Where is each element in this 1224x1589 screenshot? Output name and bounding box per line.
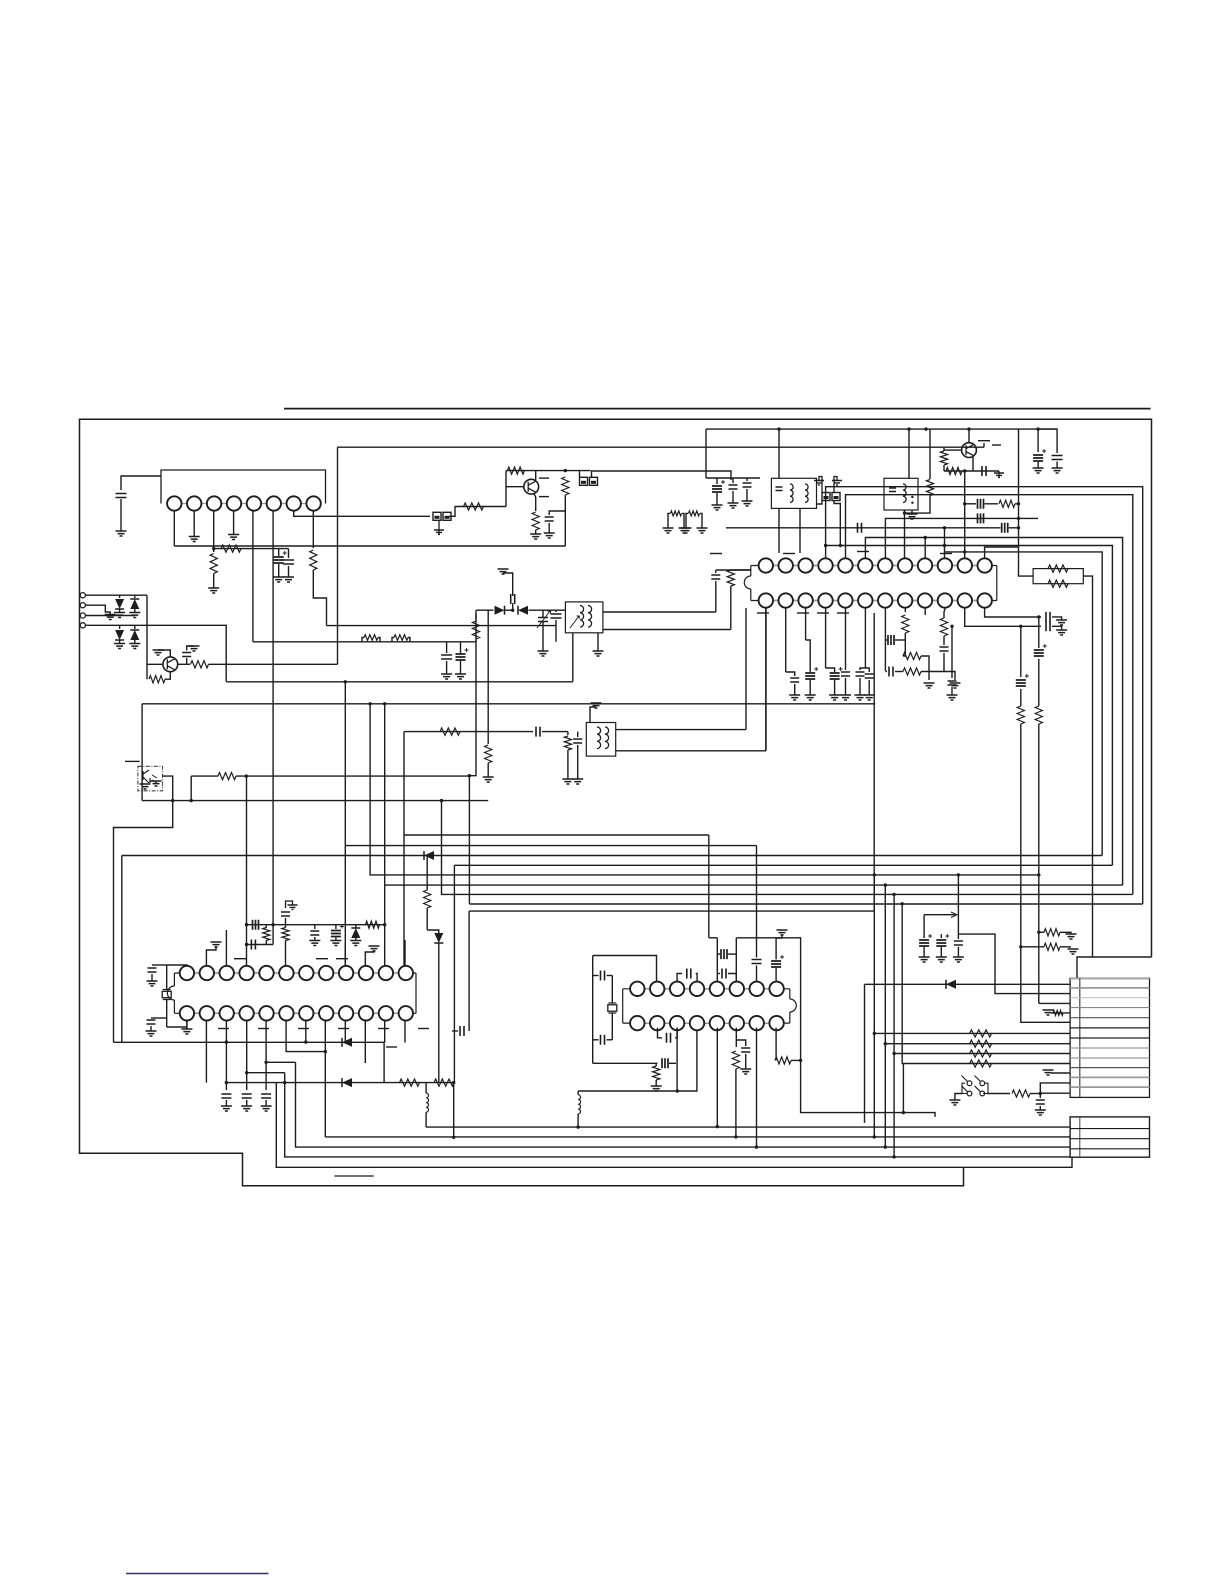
wire U1 pin3 chain down bbox=[213, 511, 215, 553]
cap trio C36 bbox=[957, 934, 959, 939]
resistor R18 bbox=[946, 467, 962, 474]
ground below C44 bbox=[241, 1106, 252, 1111]
U3 pin1 bottom ground bbox=[186, 1021, 188, 1030]
switch left wire to ground bbox=[955, 1094, 962, 1101]
capacitor C39 bbox=[147, 1020, 156, 1024]
resistor R8 bbox=[472, 621, 479, 639]
crystal X3 at U4 bbox=[611, 976, 613, 1004]
wire C30 to ground bbox=[1052, 626, 1062, 630]
ferrite bead pair FB2 bbox=[580, 477, 588, 485]
branch caps of pin3 network bbox=[278, 549, 280, 556]
line y=775.7 from C5 chain bbox=[469, 640, 476, 776]
pin number mark bbox=[378, 1028, 389, 1030]
IC U2 pins bottom row bbox=[766, 600, 985, 602]
ground above U3 pin10 bbox=[369, 946, 380, 951]
T2 internal arrow bbox=[570, 616, 580, 628]
resistor R41 bbox=[653, 1066, 660, 1080]
cap bank column 1 bbox=[716, 478, 718, 484]
cap C55 at R42 bbox=[736, 1040, 745, 1046]
ground below C37 bbox=[1035, 1110, 1046, 1115]
resistor R21 in box bbox=[1048, 580, 1068, 587]
capacitor C11 bbox=[545, 517, 554, 521]
wire C1 to ground bbox=[120, 499, 122, 531]
ground below C39 bbox=[146, 1031, 157, 1036]
ground below R14 bbox=[530, 534, 541, 539]
trimmer capacitor CT1 bbox=[542, 610, 544, 617]
cap C52 column bbox=[756, 944, 758, 958]
left vertical of y=703.8 line bbox=[141, 704, 143, 801]
ground at J2 bbox=[105, 615, 116, 620]
ground below L4 right leg bbox=[697, 528, 708, 533]
capacitor C24 bbox=[856, 672, 865, 676]
capacitor C38 bbox=[148, 968, 157, 972]
diode D1 upper pair column A bbox=[119, 595, 121, 598]
resistor R26 bbox=[1017, 706, 1024, 724]
pin number mark bbox=[992, 444, 1001, 446]
optocoupler U5 bbox=[138, 766, 163, 791]
T3 secondary out top bbox=[616, 729, 746, 731]
capacitor C45 bbox=[261, 1094, 271, 1098]
U2 pin9 network bbox=[924, 608, 926, 615]
resistor R13 above Q2 bbox=[507, 467, 524, 474]
line y=703.8 from left vertical bbox=[142, 703, 875, 705]
pin number mark bbox=[298, 1028, 309, 1030]
X1 internal capacitor bbox=[889, 488, 896, 492]
resistor R35 bbox=[1012, 1090, 1030, 1097]
IC U1 pins 1-8 bbox=[174, 503, 313, 505]
electrolytic capacitor C61 bbox=[253, 920, 259, 930]
pin number mark bbox=[837, 612, 849, 614]
capacitor C41 bbox=[310, 931, 319, 935]
wire box right down the bundle bbox=[1083, 576, 1092, 957]
resistor R34 stub bbox=[1053, 1010, 1063, 1015]
wire R23 right down bbox=[921, 656, 929, 680]
ground below C14 bbox=[742, 501, 753, 506]
wire X3 bottom cap bbox=[607, 1039, 613, 1041]
U2 pin6 column bbox=[864, 608, 866, 668]
wire R15 down to rail 546 bbox=[564, 511, 566, 546]
ground below D2 bbox=[129, 613, 140, 618]
bus 885 line bbox=[385, 884, 1123, 886]
bypass caps right of Q3: C16 bbox=[1037, 429, 1039, 452]
wire rail to FB2 bbox=[579, 471, 581, 478]
ground below D1 bbox=[114, 613, 125, 618]
bus 855 left drop bbox=[121, 856, 123, 1043]
capacitor C9 series bbox=[536, 727, 540, 737]
capacitor C40 bbox=[251, 940, 255, 950]
bus1 drop to X1 bbox=[908, 429, 910, 478]
capacitor C52 bbox=[752, 960, 762, 964]
U2 riser pin11 up to line 471 bbox=[964, 471, 966, 558]
U4 bottom pin7 down to L2 bbox=[756, 1028, 758, 1148]
X3 top wire to U4 pin2 bbox=[593, 956, 657, 982]
ground near CN1 top bbox=[1068, 949, 1079, 954]
bus 865 line bbox=[454, 864, 1112, 866]
electrolytic capacitor C16 bbox=[1033, 455, 1043, 461]
ground below C23 bbox=[840, 695, 851, 700]
bus 894 line bbox=[442, 801, 1133, 895]
ground below C17 bbox=[1052, 468, 1063, 473]
wire pin6 top bend bbox=[736, 938, 935, 1117]
emitter line y=471 bbox=[944, 470, 999, 472]
U3 bottom pin3 chain bbox=[225, 1021, 227, 1091]
resistor R19 bbox=[727, 570, 734, 586]
pin number mark bbox=[940, 553, 952, 555]
connector CN1 bbox=[1070, 978, 1149, 1097]
capacitor C8 at T2 input bbox=[555, 610, 557, 612]
IC U3 pins top row bbox=[187, 972, 406, 974]
ground below C16 bbox=[1033, 468, 1044, 473]
nest corner 2: bus 874 down to CN1 row bbox=[873, 875, 875, 1137]
corner 5 tail down to CN2 jog bbox=[902, 1064, 904, 1113]
line y=800.6 right bbox=[191, 800, 488, 802]
ground above U3 pin6 bbox=[286, 901, 293, 908]
wire Q3 top to bus1 bbox=[968, 429, 970, 443]
pin number mark bbox=[316, 958, 328, 960]
ground below R41 bbox=[651, 1086, 662, 1091]
ground above C7 bbox=[498, 569, 509, 574]
electrolytic capacitor C26 bbox=[888, 635, 894, 645]
ground below C13 bbox=[728, 503, 739, 508]
capacitor C46 bbox=[601, 971, 605, 981]
resistor R14 below Q2 bbox=[532, 512, 539, 530]
ground right of C15 bbox=[998, 471, 1000, 477]
inductor IND1 bbox=[426, 1093, 428, 1112]
wire U1 pin4 down bbox=[233, 511, 235, 535]
U2 riser pin5 to line 494 bbox=[846, 495, 1133, 895]
ground at C5 bbox=[441, 674, 452, 679]
wire T1 bottom to U2 bbox=[778, 508, 780, 553]
diode D3 lower pair column A bbox=[119, 625, 121, 629]
wire to C22 bbox=[826, 668, 835, 672]
wire U1 pin5 down to node bbox=[252, 511, 254, 642]
diode D2 bbox=[130, 599, 139, 609]
jumper inductor L2 bbox=[394, 635, 408, 641]
ground at C30 bbox=[1056, 630, 1067, 635]
resistor R12 bbox=[464, 503, 484, 510]
diode pair feeding T2 bbox=[476, 609, 494, 611]
T1 primary coil bbox=[790, 484, 793, 503]
wire x=1038.8 into CN1 row3 bbox=[1039, 1002, 1070, 1004]
ground at C29 bbox=[1056, 620, 1067, 625]
resistor R16 right of X1 bbox=[929, 429, 931, 479]
wire C26 left bbox=[885, 639, 887, 641]
wire Q2 collector up bbox=[535, 471, 537, 481]
wire opto line to resistor R6 bbox=[191, 775, 218, 777]
ground below C21 bbox=[805, 695, 816, 700]
wire X2 top into U3 bbox=[167, 964, 187, 967]
ground at C2 bbox=[273, 577, 284, 582]
U2 riser pin4 to line 486 bbox=[826, 487, 1143, 904]
U3 bottom pin5 chain bbox=[265, 1021, 267, 1091]
capacitor C58 on line 527 bbox=[858, 523, 862, 533]
wire input J1 right bbox=[85, 594, 147, 596]
capacitor C57 stub bbox=[460, 1026, 464, 1036]
wire C28 node down to ground bbox=[944, 672, 955, 681]
cap trio C35 bbox=[940, 934, 942, 938]
wires T2 secondary joins bbox=[715, 610, 717, 612]
wire U1 pin3 branch right bbox=[214, 548, 289, 550]
capacitor C8 bbox=[551, 614, 562, 618]
capacitor C4 beside Q1 bbox=[187, 646, 194, 648]
U4 bottom pin8 resistor to right bbox=[775, 1028, 777, 1061]
ground mark in optocoupler bbox=[151, 781, 162, 786]
IC U2 body bbox=[750, 566, 752, 577]
ferrite bead pair FB3 bbox=[822, 493, 830, 501]
capacitor C7 above diode node bbox=[512, 603, 514, 610]
wire x=1020.8 to resistor R28 and ground bbox=[1019, 945, 1022, 948]
ground below L4 bbox=[681, 528, 692, 533]
ground above U4 right bbox=[776, 934, 782, 944]
capacitor C5 bbox=[441, 655, 452, 659]
diode D6 bbox=[518, 606, 528, 615]
bypass cap C17 bbox=[1038, 429, 1057, 453]
T1 internal capacitor bbox=[776, 487, 783, 491]
CN1 row stub grounds bbox=[1051, 1012, 1070, 1014]
diode D4 bbox=[130, 630, 139, 640]
pin number mark bbox=[125, 760, 140, 762]
ground above Q1 bbox=[158, 650, 170, 657]
diode D7 bbox=[424, 851, 434, 860]
diode D2 upper pair column B bbox=[134, 595, 136, 598]
wire input J3 right bbox=[85, 615, 134, 617]
resistor R15 bbox=[562, 477, 569, 495]
ground below X1 bbox=[907, 514, 918, 519]
electrolytic capacitor C50 bbox=[721, 949, 727, 959]
Q3 base left wire bbox=[944, 449, 962, 451]
U3 bottom pin11 bbox=[384, 1021, 386, 1043]
wire U2 pin12 top to box vertical bbox=[985, 547, 1019, 558]
electrolytic capacitor C6 bbox=[456, 654, 466, 660]
electrolytic capacitor C12 bbox=[712, 486, 722, 492]
capacitor C4 plates bbox=[182, 653, 191, 657]
bottom-left nest L4 bbox=[276, 1083, 1072, 1168]
ground below C43 bbox=[221, 1106, 232, 1111]
ground below C55 bbox=[740, 1069, 751, 1074]
cap C11 next to R14 bbox=[549, 511, 565, 515]
wire Q2 emitter down bbox=[534, 494, 536, 512]
transistor Q1 bbox=[163, 657, 178, 672]
jumper inductor L1 bbox=[364, 635, 378, 641]
ground below C36 bbox=[953, 957, 964, 962]
diode D3 bbox=[115, 630, 124, 640]
resistor R37 bbox=[282, 928, 289, 941]
inductor IND1 below line B bbox=[425, 1083, 427, 1093]
resistor R5 under Q1 bbox=[149, 676, 165, 683]
capacitor C20 bbox=[790, 678, 799, 682]
oscillator can X1 bbox=[884, 478, 918, 510]
rail y=924.7 above U3 bbox=[247, 924, 385, 926]
line B end vertical to L1 bbox=[453, 1083, 455, 1138]
diode D1 bbox=[115, 599, 124, 609]
ground below R1 bbox=[208, 588, 219, 593]
U3 top components: pin2 ground bend bbox=[206, 946, 216, 966]
U3 right-side diode chain vertical bbox=[426, 856, 428, 891]
U3 pin9 riser lower stub bbox=[344, 945, 346, 966]
jumper bumps pair near x=680 bbox=[668, 513, 670, 528]
ground below C28 bbox=[950, 683, 961, 688]
U2 left resistor R19 bbox=[731, 569, 751, 571]
resistor R8 under diode line bbox=[475, 610, 477, 620]
wire input J2 bend bbox=[85, 605, 110, 614]
ground below FB1 bbox=[438, 520, 440, 534]
pin number mark bbox=[978, 440, 990, 442]
ground below D4 bbox=[129, 644, 140, 649]
T2 ground leg bbox=[597, 633, 599, 651]
diode D4 lower pair column B bbox=[134, 625, 136, 629]
resistor R39 on line B bbox=[400, 1079, 420, 1086]
transistor Q3 bbox=[962, 443, 977, 458]
ground at C3 bbox=[283, 577, 294, 582]
resistor R45 on rail bbox=[366, 921, 380, 928]
wire C29 to ground bbox=[1052, 617, 1062, 620]
ground below C42 bbox=[330, 941, 341, 946]
wire stub CN1 row10 bbox=[1051, 1072, 1070, 1074]
ground below C20 bbox=[789, 695, 800, 700]
bus 885 left vertical through to U3 pin11 bbox=[384, 704, 386, 966]
transformer T2 bbox=[565, 602, 603, 633]
diode feed line to CN1 row1 bbox=[865, 983, 1071, 985]
wire R28 to ground bbox=[1060, 947, 1070, 948]
capacitor C10 bbox=[573, 739, 582, 743]
capacitor C23 bbox=[841, 672, 850, 676]
ground below C11 bbox=[544, 533, 555, 538]
wire C48 up to U4 pin bbox=[611, 1039, 613, 1041]
capacitor C30 bbox=[1046, 621, 1050, 631]
electrolytic capacitor C42 bbox=[331, 931, 341, 937]
ground below C25 bbox=[864, 695, 875, 700]
U3 bottom pin6 jog bbox=[286, 1021, 325, 1052]
nest corner 4 bbox=[893, 894, 895, 1157]
U3 pin3 chain bbox=[225, 930, 227, 966]
series resistor pair box RP1 bbox=[1033, 569, 1083, 584]
bus 911 horizontal bbox=[469, 910, 874, 912]
capacitor C7 bbox=[511, 594, 515, 604]
resistor R10 on T3 line bbox=[440, 728, 460, 735]
vertical x=1020.8 chain bbox=[1020, 626, 1022, 677]
wire U1 top to bypass cap bbox=[121, 476, 161, 490]
ground above T3 bbox=[591, 703, 602, 708]
jumper L3 bbox=[671, 511, 682, 516]
IC U3 body bbox=[173, 973, 175, 986]
crystal X2 at U3 bbox=[166, 965, 168, 989]
ground below C34 bbox=[919, 957, 930, 962]
pin number mark bbox=[710, 553, 722, 555]
U4 pin6 riser bbox=[735, 938, 737, 982]
resistor R11 bbox=[564, 736, 571, 750]
capacitor C18 bbox=[711, 575, 720, 579]
T1 secondary coil bbox=[805, 484, 808, 503]
page top rule bbox=[284, 408, 1151, 410]
U2 pin12 bottom right series caps bbox=[985, 608, 1041, 617]
bus 875 line bbox=[370, 704, 1039, 875]
FB3 left leg to T1 bbox=[817, 501, 823, 505]
line 503.8 with R44 and C59 bbox=[965, 503, 976, 505]
electrolytic capacitor C31 bbox=[1016, 680, 1026, 686]
capacitor C29 bbox=[1046, 612, 1050, 622]
cap C53 column bbox=[775, 944, 777, 959]
nest corner 5 bbox=[902, 904, 1070, 1064]
pin number mark bbox=[418, 1028, 429, 1030]
pin number mark bbox=[218, 1028, 229, 1030]
pin number mark bbox=[757, 612, 769, 614]
line y=471 to right cap bank bbox=[592, 471, 732, 480]
U4 bottom pin2 cap link bbox=[658, 1028, 663, 1038]
capacitor C47 bbox=[601, 1035, 605, 1045]
wire SW1 node right into CN1 row12 bbox=[1040, 1092, 1070, 1094]
wire U1 pin2 down bbox=[193, 511, 195, 537]
capacitor C5 on node line bbox=[446, 642, 448, 653]
wire SW1 node up into CN1 bbox=[1040, 1083, 1070, 1094]
crystal X3 bbox=[608, 1003, 616, 1013]
electrolytic C6 on node line bbox=[460, 642, 462, 653]
collector rail y=470.6 bbox=[506, 470, 591, 472]
ground below C12 bbox=[712, 505, 723, 510]
U2 pin3 down bbox=[805, 608, 807, 640]
resistor R7 drop to diode node bbox=[475, 614, 477, 642]
wire opto branch down to y=800 line bbox=[190, 776, 192, 801]
resistor R4 at Q1 bbox=[191, 661, 209, 668]
cap column C41 bbox=[314, 925, 316, 929]
FB3 right leg to riser bbox=[834, 501, 840, 546]
wire C48 node to R41 bbox=[655, 1063, 657, 1066]
ground below C33 bbox=[947, 695, 958, 700]
cap C33 left of bundle bbox=[951, 626, 953, 678]
cap C37 below SW1 node bbox=[1039, 1094, 1041, 1099]
ground below R23 bbox=[924, 683, 935, 688]
resistor R11 at T3 input bbox=[567, 732, 569, 735]
line 845.6 vertical through to U3 pin9 bbox=[344, 682, 346, 966]
capacitor C51 bbox=[722, 969, 726, 979]
diode D10 bbox=[434, 933, 443, 943]
T2 secondary out bottom bbox=[603, 629, 731, 631]
resistor R1 below U1 pin3 bbox=[210, 554, 217, 574]
U3 bottom pin10 bbox=[364, 1021, 366, 1064]
U2 riser pin9 to line 537 bbox=[924, 538, 926, 559]
capacitor C27 bbox=[889, 667, 893, 677]
pin number mark bbox=[338, 1028, 349, 1030]
bus 865 left vertical down to line B bbox=[453, 865, 455, 1082]
cap bank column 2 bbox=[732, 478, 734, 483]
ground below L3 right leg bbox=[679, 528, 690, 533]
resistor R3 below U1 pin8 bbox=[310, 550, 317, 570]
IC U4 pins bottom row bbox=[637, 1022, 776, 1024]
input jack J1 bbox=[80, 593, 85, 598]
electrolytic capacitor C59 bbox=[978, 499, 984, 509]
vertical diode node down to ground chain bbox=[487, 610, 489, 744]
line A end vertical to line B bbox=[383, 1042, 385, 1082]
power bus 1 bbox=[706, 428, 1057, 430]
IC U4 body bbox=[623, 988, 790, 990]
U3 bottom pin8 down to L1 bbox=[324, 1021, 326, 1137]
pin number mark bbox=[539, 477, 549, 479]
wire J1 line down to Q1 base bbox=[147, 595, 163, 664]
pin number mark bbox=[783, 553, 795, 555]
pin number mark bbox=[539, 496, 549, 498]
line from R3 node right toward T2 area bbox=[327, 625, 557, 627]
wire U1 pin1 down to rail bbox=[173, 511, 175, 547]
capacitor C62 bbox=[281, 912, 290, 916]
resistor R44 bbox=[999, 500, 1015, 507]
U3 pin10 ground bend bbox=[365, 950, 374, 966]
diode column D9 bbox=[355, 925, 357, 928]
U2 pin5 down bbox=[845, 608, 847, 670]
resistor R31 bbox=[970, 1040, 992, 1047]
L2 top jog bbox=[266, 1061, 295, 1063]
diode D8 bbox=[946, 980, 956, 989]
U2 riser pin6 to line 537 bbox=[865, 538, 1122, 886]
electrolytic capacitor C19 on line 527 bbox=[1002, 523, 1008, 533]
